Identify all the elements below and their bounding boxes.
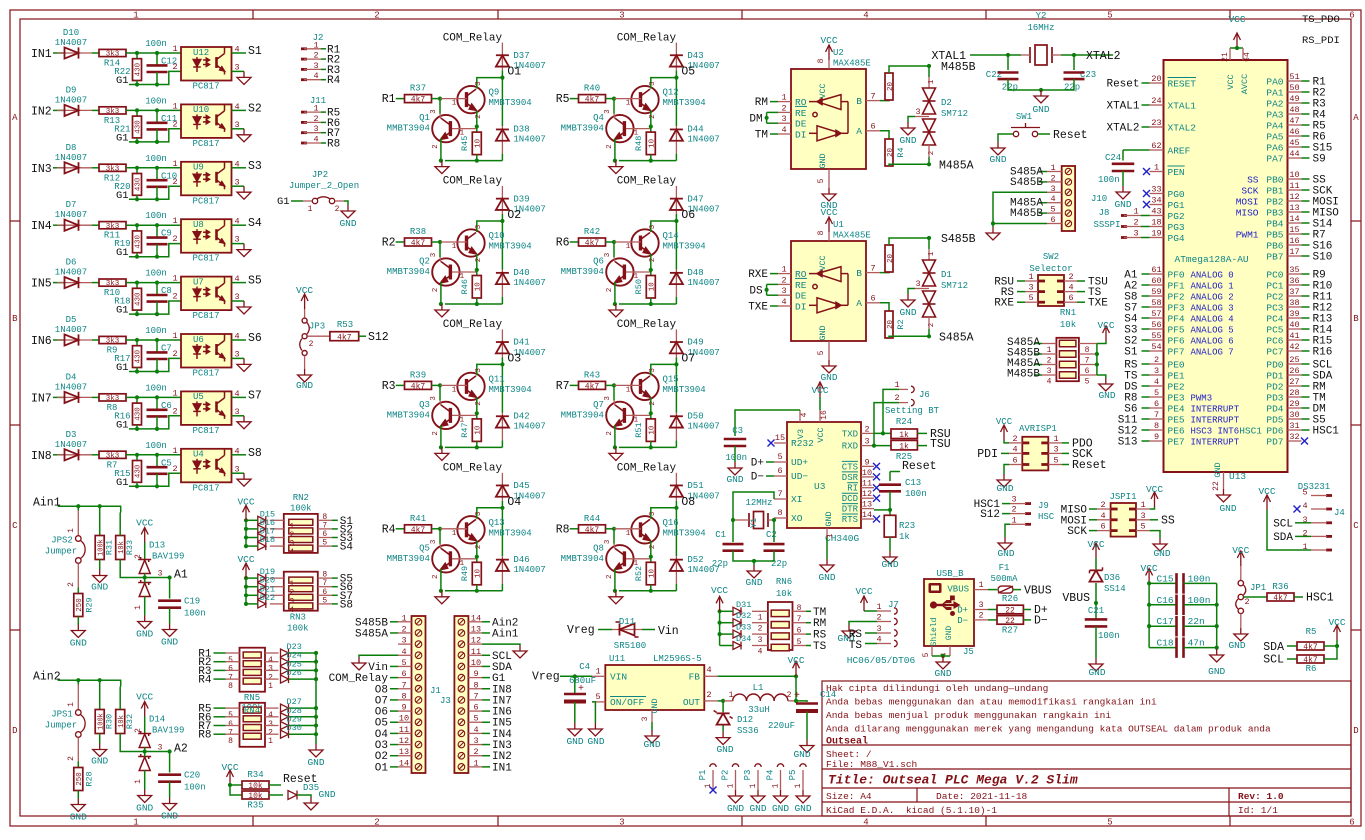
svg-text:2: 2 <box>268 729 273 738</box>
svg-text:S3: S3 <box>248 160 262 173</box>
svg-text:2: 2 <box>1244 597 1249 607</box>
wire D33 in <box>720 633 733 635</box>
svg-text:A2: A2 <box>174 743 188 756</box>
resistor R53 4k7 <box>307 335 330 337</box>
svg-text:R27: R27 <box>1002 626 1018 636</box>
svg-text:S485B: S485B <box>941 233 976 246</box>
power VCC <box>1334 625 1341 640</box>
wire ground rail <box>619 590 677 592</box>
svg-text:100n: 100n <box>1098 631 1120 641</box>
svg-text:10: 10 <box>475 138 483 148</box>
junction <box>135 395 139 399</box>
svg-text:10: 10 <box>475 569 483 579</box>
svg-text:22p: 22p <box>1064 83 1080 93</box>
svg-text:6: 6 <box>473 703 478 713</box>
svg-text:1: 1 <box>452 100 457 108</box>
connector J3 <box>454 616 468 773</box>
diode D24 <box>265 661 279 663</box>
pin XO 8 <box>774 517 787 519</box>
svg-text:4: 4 <box>1302 501 1307 511</box>
svg-text:430: 430 <box>135 235 143 249</box>
svg-text:GND: GND <box>70 812 87 823</box>
svg-text:19: 19 <box>1151 229 1161 239</box>
svg-text:3: 3 <box>915 107 920 117</box>
svg-text:UD+: UD+ <box>791 457 808 468</box>
svg-text:PD4: PD4 <box>1266 404 1283 415</box>
junction <box>155 108 159 112</box>
svg-text:R42: R42 <box>584 227 600 237</box>
svg-text:15: 15 <box>775 433 785 443</box>
junction <box>155 338 159 342</box>
pin PC5 40 <box>1288 328 1302 330</box>
svg-text:430: 430 <box>135 292 143 306</box>
svg-text:4k7: 4k7 <box>585 239 600 248</box>
svg-text:+: + <box>794 691 800 702</box>
diode D42 1N4007 <box>501 413 503 441</box>
svg-text:VCC: VCC <box>1226 74 1236 89</box>
diode D34 <box>752 645 768 647</box>
wire D22 in <box>246 603 258 605</box>
ground <box>138 790 152 803</box>
svg-text:GND: GND <box>1219 503 1236 514</box>
svg-text:GND: GND <box>307 757 324 768</box>
svg-text:3: 3 <box>430 396 438 401</box>
svg-text:D52: D52 <box>687 555 703 565</box>
junction <box>649 555 653 559</box>
pin 5 GND U1 <box>828 341 830 360</box>
svg-text:8: 8 <box>817 58 826 63</box>
svg-text:R4: R4 <box>327 75 341 87</box>
diode D38 1N4007 <box>501 126 503 154</box>
svg-text:1: 1 <box>172 274 177 284</box>
node O1 <box>501 71 503 127</box>
svg-text:64: 64 <box>1243 52 1252 62</box>
svg-text:2: 2 <box>313 51 318 61</box>
wire <box>606 98 615 100</box>
svg-text:RS: RS <box>813 630 827 642</box>
diode D15 <box>270 519 284 521</box>
power VCC <box>243 563 250 578</box>
svg-text:Y1: Y1 <box>749 518 759 528</box>
svg-text:RXE: RXE <box>748 269 768 281</box>
transistor Q3 MMBT3904 <box>432 402 459 429</box>
pin PF4 ANALOG 4 <box>1150 317 1164 319</box>
pin PE3 5 <box>1150 396 1164 398</box>
buffers inside U1 <box>809 267 848 313</box>
pin PF2 ANALOG 2 <box>1150 295 1164 297</box>
svg-text:2: 2 <box>374 11 379 21</box>
ground JP1 <box>1240 614 1242 628</box>
wire J1 pin4 gnd <box>359 655 398 657</box>
pin XI 7 <box>774 498 787 500</box>
svg-text:B: B <box>856 268 862 279</box>
svg-text:8: 8 <box>473 680 478 690</box>
svg-text:20: 20 <box>887 148 895 158</box>
svg-text:S13: S13 <box>1118 437 1138 449</box>
junction <box>649 268 653 272</box>
svg-text:R34: R34 <box>247 770 263 780</box>
wire <box>92 109 99 111</box>
svg-text:PC2: PC2 <box>1266 292 1283 303</box>
resistor network RN5 100k <box>240 648 266 692</box>
junction <box>500 506 504 510</box>
svg-text:GND: GND <box>91 582 108 593</box>
wire <box>92 224 99 226</box>
svg-text:1: 1 <box>1050 163 1055 173</box>
svg-text:GND: GND <box>1208 666 1225 677</box>
svg-text:DE: DE <box>795 291 807 302</box>
ground <box>820 559 834 572</box>
wire D30 out <box>289 733 317 735</box>
svg-text:4k7: 4k7 <box>1273 594 1288 603</box>
svg-text:DE: DE <box>795 119 807 130</box>
svg-text:D42: D42 <box>513 411 529 421</box>
junction <box>1335 644 1339 648</box>
svg-text:KiCad E.D.A. kicad (5.1.10)-1: KiCad E.D.A. kicad (5.1.10)-1 <box>826 805 997 816</box>
svg-text:1N4007: 1N4007 <box>55 440 87 450</box>
svg-text:C2: C2 <box>766 530 777 540</box>
svg-text:5: 5 <box>1085 378 1090 387</box>
svg-text:3: 3 <box>604 252 612 257</box>
wire R3 <box>396 384 405 386</box>
svg-text:PE4: PE4 <box>1168 404 1185 415</box>
pin 3 D2 gnd <box>915 116 929 118</box>
svg-text:R8: R8 <box>556 523 570 536</box>
power VCC AVRISP <box>1004 440 1009 443</box>
svg-text:RTS: RTS <box>842 515 858 525</box>
svg-text:VCC: VCC <box>136 692 153 703</box>
pin PB6 16 <box>1288 244 1302 246</box>
svg-text:430: 430 <box>135 62 143 76</box>
svg-text:6: 6 <box>1154 399 1159 409</box>
junction <box>794 674 798 678</box>
resistor R45 10 <box>476 127 478 133</box>
junction <box>612 383 616 387</box>
ground <box>1034 90 1048 103</box>
svg-text:RN2: RN2 <box>293 493 309 503</box>
junction <box>1095 362 1099 366</box>
svg-text:VCC: VCC <box>136 518 153 529</box>
svg-text:13: 13 <box>471 624 481 634</box>
svg-text:4: 4 <box>1068 283 1073 293</box>
svg-text:3k3: 3k3 <box>106 165 120 173</box>
svg-text:GND: GND <box>749 803 766 814</box>
wire S2 <box>232 109 247 111</box>
svg-text:G1: G1 <box>116 190 129 202</box>
svg-text:S12: S12 <box>980 509 1000 521</box>
resistor R49 10 <box>476 557 478 563</box>
svg-text:C21: C21 <box>1088 606 1104 616</box>
svg-text:14: 14 <box>399 758 409 768</box>
svg-text:M485B: M485B <box>1010 208 1043 220</box>
ground <box>609 304 623 317</box>
svg-text:1: 1 <box>172 44 177 54</box>
svg-text:MAX485E: MAX485E <box>833 59 871 69</box>
svg-text:XTAL1: XTAL1 <box>931 50 966 63</box>
svg-text:S7: S7 <box>248 389 262 402</box>
svg-text:PA7: PA7 <box>1266 154 1283 165</box>
ground <box>237 301 251 314</box>
svg-text:COM_Relay: COM_Relay <box>443 176 503 188</box>
pin PEN 1 <box>1150 171 1164 173</box>
svg-text:3: 3 <box>475 81 483 86</box>
svg-text:1: 1 <box>452 530 457 538</box>
svg-text:J3: J3 <box>440 696 451 706</box>
svg-text:3: 3 <box>1028 283 1033 293</box>
junction <box>674 219 678 223</box>
svg-text:IN1: IN1 <box>31 48 52 61</box>
svg-text:PD7: PD7 <box>1266 437 1283 448</box>
power VCC <box>1237 551 1244 566</box>
diode D27 <box>265 707 279 709</box>
junction <box>155 140 159 144</box>
svg-text:4k7: 4k7 <box>411 382 426 391</box>
junction <box>439 589 443 593</box>
no-connect <box>1301 438 1308 445</box>
svg-text:D47: D47 <box>687 194 703 204</box>
svg-text:3: 3 <box>158 744 163 753</box>
svg-text:D11: D11 <box>619 617 635 627</box>
pin PE6 8 <box>1150 429 1164 431</box>
svg-text:ANALOG 4: ANALOG 4 <box>1191 315 1234 325</box>
svg-text:5: 5 <box>595 692 600 702</box>
ground <box>435 304 449 317</box>
power VCC rail RN3 <box>245 578 247 604</box>
svg-text:R5: R5 <box>1306 627 1317 637</box>
resistor R35 10k <box>230 785 242 795</box>
wire D16 in <box>246 528 258 530</box>
svg-text:3: 3 <box>473 736 478 746</box>
wire V3 C3 <box>735 410 800 436</box>
svg-text:PC817: PC817 <box>192 426 219 436</box>
svg-text:3: 3 <box>1050 184 1055 194</box>
svg-text:P3: P3 <box>743 770 753 781</box>
svg-text:10: 10 <box>399 714 409 724</box>
svg-text:PA6: PA6 <box>1266 143 1283 154</box>
junction <box>135 427 139 431</box>
wire ground rail <box>445 446 503 448</box>
svg-text:D45: D45 <box>513 481 529 491</box>
svg-text:SW2: SW2 <box>1043 252 1059 262</box>
pin D+ 3 resistor R26 22 <box>974 609 988 611</box>
svg-text:12: 12 <box>1289 192 1299 202</box>
wire G1 rail <box>129 473 181 486</box>
svg-text:A1: A1 <box>174 569 188 582</box>
pin XTAL1 24 <box>1150 104 1164 106</box>
wire S1 out <box>318 519 332 521</box>
svg-text:GND: GND <box>726 474 743 485</box>
ground <box>822 188 836 201</box>
ground <box>609 447 623 460</box>
TVS diode D1 SM712 <box>928 249 930 260</box>
pin PA1 50 <box>1288 91 1302 93</box>
junction <box>135 281 139 285</box>
svg-text:R6: R6 <box>556 237 570 250</box>
svg-text:28: 28 <box>1289 388 1299 398</box>
svg-text:R23: R23 <box>899 521 915 531</box>
svg-text:DS: DS <box>749 285 763 297</box>
node O4 <box>501 501 503 557</box>
svg-text:PWM3: PWM3 <box>1191 394 1213 404</box>
pin PA2 49 <box>1288 102 1302 104</box>
ground <box>163 624 177 637</box>
svg-text:2: 2 <box>268 673 273 682</box>
wire <box>432 528 441 530</box>
pin XTAL2 23 <box>1150 126 1164 128</box>
junction <box>155 369 159 373</box>
svg-text:RXE: RXE <box>994 298 1014 310</box>
svg-text:2: 2 <box>475 401 483 406</box>
svg-text:PD0: PD0 <box>1266 360 1283 371</box>
wire <box>92 282 99 284</box>
svg-text:1: 1 <box>1011 515 1016 525</box>
svg-text:GND: GND <box>824 511 834 526</box>
svg-text:5: 5 <box>817 350 826 355</box>
diode D50 1N4007 <box>675 413 677 441</box>
ground <box>304 797 318 810</box>
svg-text:U9: U9 <box>193 163 204 173</box>
pin RESET 20 <box>1150 82 1164 84</box>
junction <box>155 395 159 399</box>
svg-text:2: 2 <box>172 62 177 72</box>
diode D10 1N4007 <box>57 52 92 54</box>
svg-text:U3: U3 <box>814 481 826 492</box>
junction <box>613 159 617 163</box>
ground J9 <box>1005 524 1010 537</box>
svg-text:1: 1 <box>172 446 177 456</box>
junction <box>649 589 653 593</box>
wire S2 out <box>318 528 332 530</box>
power VCC <box>1103 326 1110 341</box>
svg-text:PA1: PA1 <box>1266 88 1283 99</box>
svg-text:S10: S10 <box>1313 252 1333 264</box>
junction <box>1235 46 1239 50</box>
svg-text:PB5: PB5 <box>1266 230 1283 241</box>
power VCC <box>716 596 723 611</box>
svg-text:2: 2 <box>649 545 657 550</box>
svg-text:U10: U10 <box>193 105 209 115</box>
wire pin3 gnd <box>232 300 245 302</box>
svg-text:B: B <box>12 314 18 324</box>
pin PC2 37 <box>1288 295 1302 297</box>
junction <box>244 535 248 539</box>
svg-text:P1: P1 <box>698 770 708 781</box>
pin PD0 25 <box>1288 363 1302 365</box>
svg-text:VCC: VCC <box>237 554 254 565</box>
svg-text:1: 1 <box>978 580 983 590</box>
svg-text:PC817: PC817 <box>192 82 219 92</box>
diode D16 <box>270 528 284 530</box>
power VCC <box>243 505 250 520</box>
svg-text:1: 1 <box>626 386 631 394</box>
pin PE2 4 <box>1150 385 1164 387</box>
svg-text:3: 3 <box>641 716 650 721</box>
TVS diode D2 SM712 <box>928 77 930 88</box>
svg-text:1: 1 <box>928 79 936 84</box>
svg-text:Outseal: Outseal <box>826 736 868 748</box>
svg-text:5: 5 <box>922 652 931 657</box>
junction <box>155 312 159 316</box>
wire pin3 gnd <box>232 243 245 245</box>
wire M485B <box>928 66 930 77</box>
svg-text:7: 7 <box>401 680 406 690</box>
svg-text:D18: D18 <box>260 535 275 545</box>
ground <box>883 551 897 564</box>
svg-text:20: 20 <box>1151 74 1161 84</box>
svg-text:2: 2 <box>432 144 440 149</box>
svg-text:30: 30 <box>1289 410 1299 420</box>
svg-text:AVCC: AVCC <box>1240 74 1250 94</box>
pin ONOFF 5 <box>592 701 605 703</box>
svg-text:J6: J6 <box>919 390 930 400</box>
power VCC <box>301 294 308 309</box>
junction <box>168 575 172 579</box>
svg-text:J10: J10 <box>1091 194 1107 204</box>
svg-text:Id: 1/1: Id: 1/1 <box>1238 805 1278 816</box>
svg-text:R3: R3 <box>382 380 396 393</box>
svg-text:12MHz: 12MHz <box>745 498 772 508</box>
svg-text:GND: GND <box>989 154 1006 165</box>
svg-text:4: 4 <box>268 711 273 720</box>
svg-text:GND: GND <box>899 135 916 146</box>
diode D3 1N4007 <box>57 454 92 456</box>
svg-text:PC5: PC5 <box>1266 325 1283 336</box>
svg-text:5: 5 <box>817 178 826 183</box>
svg-text:PB7: PB7 <box>1266 252 1283 263</box>
svg-text:100n: 100n <box>905 489 927 499</box>
pin A U2 <box>866 130 880 132</box>
svg-text:5: 5 <box>1107 11 1112 21</box>
wire S7 out <box>318 594 332 596</box>
resistor R14 3k3 <box>99 49 126 56</box>
svg-text:2: 2 <box>172 464 177 474</box>
svg-text:Q16: Q16 <box>663 518 679 528</box>
svg-text:D35: D35 <box>303 783 319 793</box>
resistor R36 4k7 <box>1244 596 1268 598</box>
svg-text:1: 1 <box>1053 434 1058 444</box>
svg-text:R29: R29 <box>85 597 95 612</box>
svg-text:10: 10 <box>475 425 483 435</box>
svg-text:PG1: PG1 <box>1168 200 1185 211</box>
svg-text:35: 35 <box>1289 265 1299 275</box>
junction <box>135 82 139 86</box>
transistor Q11 MMBT3904 <box>457 373 484 400</box>
ground <box>936 656 950 669</box>
junction <box>674 362 678 366</box>
wire GND J7 <box>849 622 877 626</box>
svg-text:39: 39 <box>1289 309 1299 319</box>
svg-text:S485B: S485B <box>1010 177 1043 189</box>
svg-text:R2: R2 <box>382 237 396 250</box>
svg-text:7: 7 <box>1154 410 1159 420</box>
pin TXD 2 <box>861 432 874 434</box>
svg-text:VCC: VCC <box>811 385 828 396</box>
svg-text:TM: TM <box>813 607 826 619</box>
svg-text:Q14: Q14 <box>663 231 679 241</box>
pin PE0 2 <box>1150 363 1164 365</box>
svg-text:2: 2 <box>1011 505 1016 515</box>
svg-text:4: 4 <box>1012 444 1017 454</box>
svg-text:MMBT3904: MMBT3904 <box>387 554 430 564</box>
resistor R25 1k <box>874 445 891 447</box>
wire R4 <box>396 528 405 530</box>
svg-text:GND: GND <box>1098 390 1115 401</box>
pin CTS 9 <box>861 465 874 467</box>
svg-text:4: 4 <box>781 125 786 135</box>
svg-text:3: 3 <box>475 368 483 373</box>
svg-text:Q11: Q11 <box>489 374 505 384</box>
svg-text:Q2: Q2 <box>419 257 430 267</box>
